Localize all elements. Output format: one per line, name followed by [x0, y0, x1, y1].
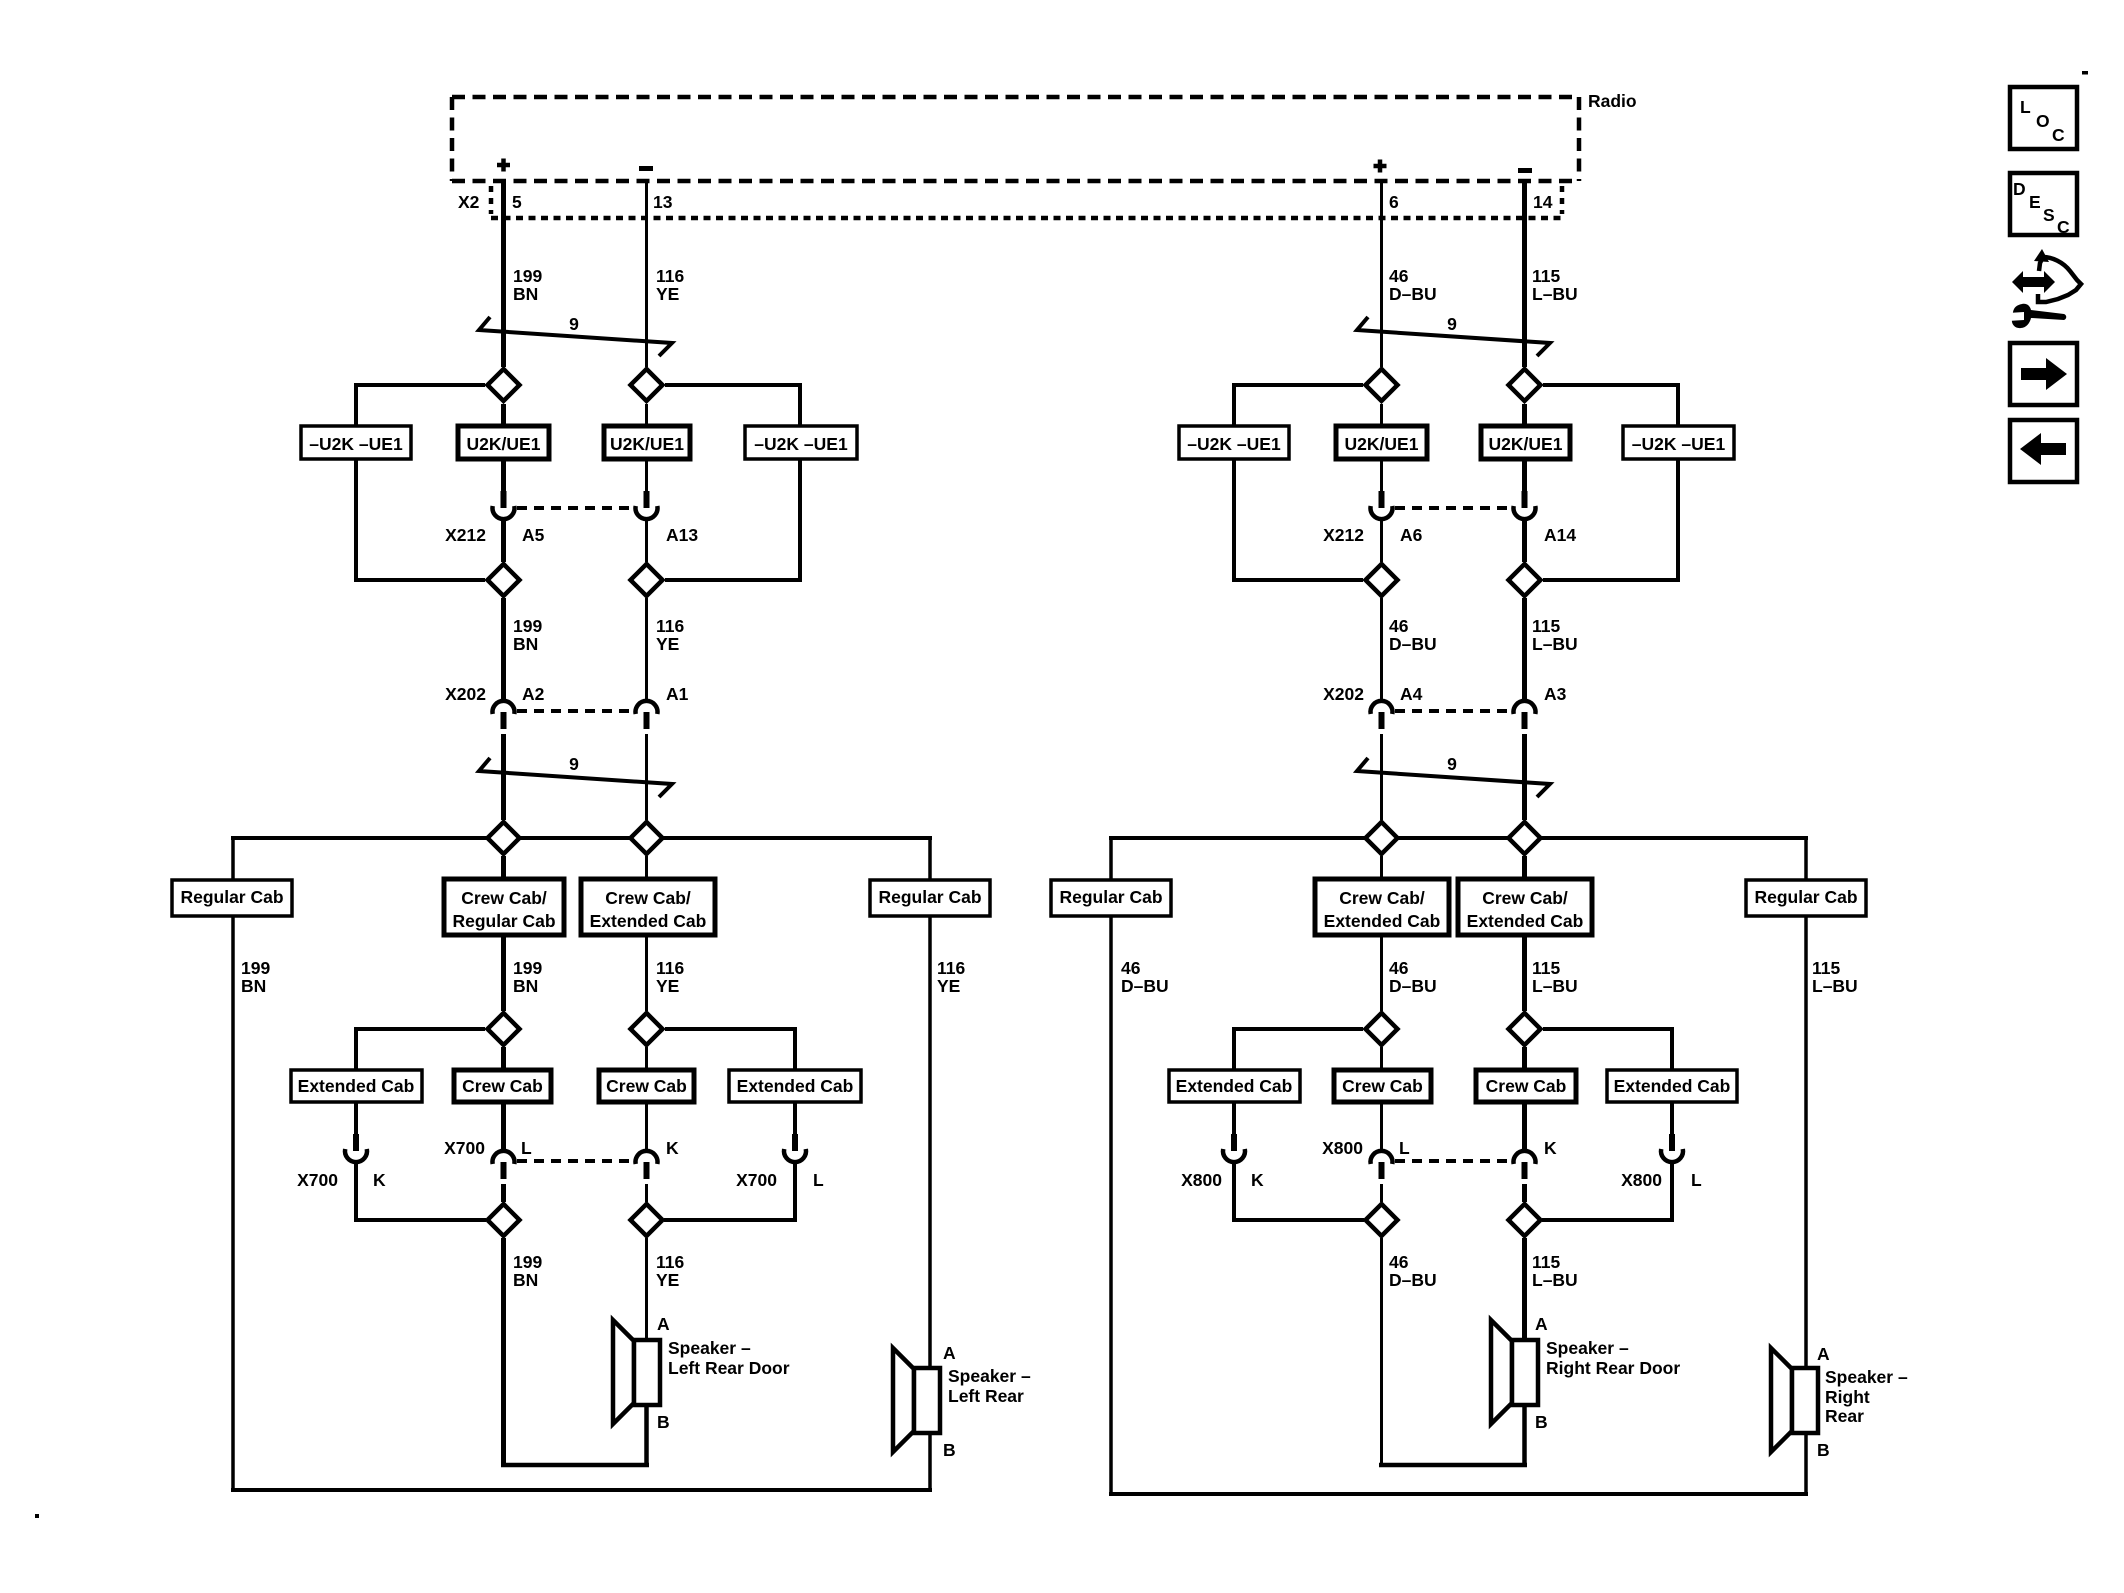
svg-text:Regular Cab: Regular Cab [1059, 887, 1162, 907]
svg-text:D: D [2013, 179, 2026, 199]
svg-text:6: 6 [1389, 192, 1399, 212]
svg-text:Crew Cab: Crew Cab [462, 1076, 543, 1096]
svg-text:K: K [1544, 1138, 1557, 1158]
svg-text:A14: A14 [1544, 525, 1576, 545]
svg-text:116: 116 [656, 1252, 684, 1272]
svg-text:K: K [666, 1138, 679, 1158]
svg-text:Rear: Rear [1825, 1406, 1864, 1426]
svg-text:Crew Cab/: Crew Cab/ [1482, 888, 1568, 908]
svg-text:L: L [1399, 1138, 1410, 1158]
svg-text:Speaker –: Speaker – [948, 1366, 1031, 1386]
svg-text:X800: X800 [1322, 1138, 1363, 1158]
svg-text:5: 5 [512, 192, 522, 212]
svg-text:A: A [1817, 1344, 1830, 1364]
svg-text:B: B [1535, 1412, 1548, 1432]
svg-text:–U2K –UE1: –U2K –UE1 [1187, 434, 1281, 454]
svg-text:116: 116 [656, 616, 684, 636]
svg-text:YE: YE [937, 976, 960, 996]
svg-text:YE: YE [656, 976, 679, 996]
svg-text:13: 13 [653, 192, 673, 212]
svg-text:9: 9 [1447, 314, 1457, 334]
svg-text:U2K/UE1: U2K/UE1 [1489, 434, 1563, 454]
svg-text:–U2K –UE1: –U2K –UE1 [754, 434, 848, 454]
svg-text:X700: X700 [736, 1170, 777, 1190]
svg-text:D–BU: D–BU [1389, 1270, 1437, 1290]
svg-text:X202: X202 [1323, 684, 1364, 704]
svg-text:E: E [2029, 192, 2041, 212]
svg-text:199: 199 [513, 958, 542, 978]
svg-text:L–BU: L–BU [1812, 976, 1858, 996]
svg-text:B: B [943, 1440, 956, 1460]
svg-text:Extended Cab: Extended Cab [1467, 911, 1584, 931]
svg-text:L–BU: L–BU [1532, 976, 1578, 996]
svg-text:115: 115 [1812, 958, 1840, 978]
svg-text:116: 116 [937, 958, 965, 978]
svg-text:L: L [813, 1170, 824, 1190]
svg-text:A3: A3 [1544, 684, 1567, 704]
svg-text:Crew Cab: Crew Cab [606, 1076, 687, 1096]
svg-text:Extended Cab: Extended Cab [1614, 1076, 1731, 1096]
svg-text:K: K [1251, 1170, 1264, 1190]
svg-text:X212: X212 [1323, 525, 1364, 545]
svg-text:Regular Cab: Regular Cab [452, 911, 555, 931]
svg-text:46: 46 [1389, 1252, 1409, 1272]
svg-text:L–BU: L–BU [1532, 284, 1578, 304]
svg-text:YE: YE [656, 1270, 679, 1290]
svg-text:Crew Cab/: Crew Cab/ [605, 888, 691, 908]
svg-text:46: 46 [1389, 958, 1409, 978]
svg-text:Extended Cab: Extended Cab [1176, 1076, 1293, 1096]
svg-text:Regular Cab: Regular Cab [1754, 887, 1857, 907]
svg-text:14: 14 [1533, 192, 1553, 212]
svg-text:U2K/UE1: U2K/UE1 [610, 434, 684, 454]
svg-text:U2K/UE1: U2K/UE1 [467, 434, 541, 454]
svg-text:A13: A13 [666, 525, 698, 545]
svg-text:116: 116 [656, 266, 684, 286]
svg-text:C: C [2057, 217, 2070, 237]
svg-text:Crew Cab/: Crew Cab/ [461, 888, 547, 908]
svg-text:Speaker –: Speaker – [1546, 1338, 1629, 1358]
svg-text:199: 199 [513, 266, 542, 286]
svg-text:9: 9 [569, 314, 579, 334]
svg-text:X800: X800 [1181, 1170, 1222, 1190]
svg-text:Regular Cab: Regular Cab [878, 887, 981, 907]
svg-text:A: A [1535, 1314, 1548, 1334]
svg-text:Left Rear Door: Left Rear Door [668, 1358, 790, 1378]
svg-text:D–BU: D–BU [1389, 284, 1437, 304]
svg-text:Extended Cab: Extended Cab [298, 1076, 415, 1096]
svg-text:L–BU: L–BU [1532, 634, 1578, 654]
svg-text:Right Rear Door: Right Rear Door [1546, 1358, 1680, 1378]
svg-text:X2: X2 [458, 192, 480, 212]
svg-text:–U2K –UE1: –U2K –UE1 [309, 434, 403, 454]
svg-text:Crew Cab: Crew Cab [1486, 1076, 1567, 1096]
svg-text:46: 46 [1121, 958, 1141, 978]
svg-text:X212: X212 [445, 525, 486, 545]
svg-text:B: B [1817, 1440, 1830, 1460]
svg-text:–U2K –UE1: –U2K –UE1 [1632, 434, 1726, 454]
svg-text:A: A [657, 1314, 670, 1334]
svg-text:A1: A1 [666, 684, 689, 704]
svg-text:199: 199 [241, 958, 270, 978]
svg-text:Crew Cab/: Crew Cab/ [1339, 888, 1425, 908]
svg-text:46: 46 [1389, 266, 1409, 286]
svg-text:116: 116 [656, 958, 684, 978]
svg-text:115: 115 [1532, 616, 1560, 636]
svg-text:BN: BN [241, 976, 266, 996]
svg-text:X700: X700 [444, 1138, 485, 1158]
svg-text:U2K/UE1: U2K/UE1 [1345, 434, 1419, 454]
svg-text:BN: BN [513, 284, 538, 304]
svg-text:D–BU: D–BU [1121, 976, 1169, 996]
svg-text:X700: X700 [297, 1170, 338, 1190]
svg-text:A4: A4 [1400, 684, 1423, 704]
svg-text:BN: BN [513, 1270, 538, 1290]
svg-text:K: K [373, 1170, 386, 1190]
svg-text:199: 199 [513, 616, 542, 636]
svg-text:Right: Right [1825, 1387, 1870, 1407]
svg-text:199: 199 [513, 1252, 542, 1272]
svg-text:X202: X202 [445, 684, 486, 704]
svg-text:9: 9 [569, 754, 579, 774]
svg-text:Crew Cab: Crew Cab [1342, 1076, 1423, 1096]
svg-text:L–BU: L–BU [1532, 1270, 1578, 1290]
svg-text:BN: BN [513, 976, 538, 996]
svg-text:O: O [2036, 111, 2050, 131]
svg-text:115: 115 [1532, 958, 1560, 978]
svg-text:X800: X800 [1621, 1170, 1662, 1190]
svg-text:A6: A6 [1400, 525, 1423, 545]
svg-text:D–BU: D–BU [1389, 976, 1437, 996]
svg-text:D–BU: D–BU [1389, 634, 1437, 654]
svg-text:Radio: Radio [1588, 91, 1637, 111]
svg-text:L: L [2020, 97, 2031, 117]
svg-text:YE: YE [656, 634, 679, 654]
svg-text:Extended Cab: Extended Cab [590, 911, 707, 931]
svg-text:YE: YE [656, 284, 679, 304]
svg-text:A2: A2 [522, 684, 545, 704]
svg-text:9: 9 [1447, 754, 1457, 774]
svg-text:B: B [657, 1412, 670, 1432]
svg-text:S: S [2043, 205, 2055, 225]
svg-text:C: C [2052, 125, 2065, 145]
svg-text:A5: A5 [522, 525, 545, 545]
svg-text:115: 115 [1532, 1252, 1560, 1272]
svg-text:L: L [521, 1138, 532, 1158]
svg-text:Regular Cab: Regular Cab [180, 887, 283, 907]
svg-text:L: L [1691, 1170, 1702, 1190]
svg-text:BN: BN [513, 634, 538, 654]
svg-text:115: 115 [1532, 266, 1560, 286]
svg-text:A: A [943, 1343, 956, 1363]
svg-text:Extended Cab: Extended Cab [1324, 911, 1441, 931]
svg-text:Left Rear: Left Rear [948, 1386, 1024, 1406]
svg-text:Speaker –: Speaker – [1825, 1367, 1908, 1387]
svg-text:46: 46 [1389, 616, 1409, 636]
svg-text:Extended Cab: Extended Cab [737, 1076, 854, 1096]
svg-text:Speaker –: Speaker – [668, 1338, 751, 1358]
